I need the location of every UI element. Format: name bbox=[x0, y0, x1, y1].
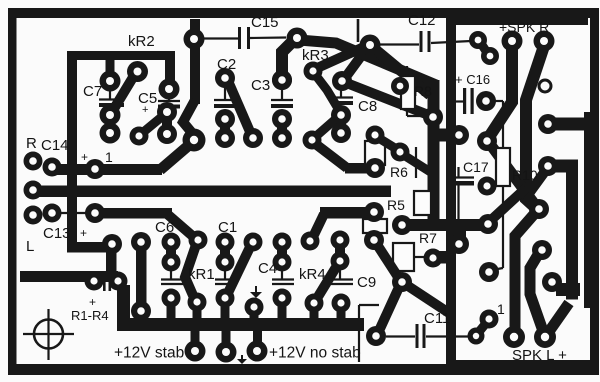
svg-text:+12V stab: +12V stab bbox=[114, 345, 184, 362]
svg-text:C12: C12 bbox=[408, 12, 436, 29]
svg-text:+12V no stab: +12V no stab bbox=[269, 345, 361, 362]
svg-text:C4: C4 bbox=[258, 260, 277, 277]
svg-text:C14: C14 bbox=[41, 137, 69, 154]
svg-text:1: 1 bbox=[105, 149, 113, 165]
svg-text:kR1: kR1 bbox=[188, 266, 215, 283]
svg-text:C2: C2 bbox=[217, 56, 236, 73]
svg-text:kR4: kR4 bbox=[299, 266, 326, 283]
svg-text:C13: C13 bbox=[43, 225, 71, 242]
svg-text:R8: R8 bbox=[414, 83, 432, 99]
svg-text:SPK L +: SPK L + bbox=[512, 347, 567, 364]
svg-text:C6: C6 bbox=[155, 219, 174, 236]
svg-text:C3: C3 bbox=[251, 77, 270, 94]
svg-text:C1: C1 bbox=[218, 219, 237, 236]
svg-text:+ C16: + C16 bbox=[455, 72, 490, 87]
svg-text:C17: C17 bbox=[463, 159, 489, 175]
svg-text:C15: C15 bbox=[251, 14, 279, 31]
svg-text:+: + bbox=[80, 226, 87, 240]
svg-text:R5: R5 bbox=[387, 197, 405, 213]
svg-text:C11: C11 bbox=[424, 310, 450, 327]
svg-text:R10: R10 bbox=[512, 167, 538, 183]
svg-text:L: L bbox=[26, 238, 34, 255]
svg-text:C9: C9 bbox=[357, 274, 376, 291]
svg-text:+: + bbox=[81, 150, 88, 164]
svg-text:+: + bbox=[89, 295, 96, 309]
svg-text:C8: C8 bbox=[358, 98, 377, 115]
svg-text:+: + bbox=[142, 104, 148, 116]
svg-text:1: 1 bbox=[497, 301, 505, 317]
svg-text:R6: R6 bbox=[390, 164, 408, 180]
svg-text:R1-R4: R1-R4 bbox=[71, 308, 109, 323]
svg-text:kR2: kR2 bbox=[128, 33, 155, 50]
svg-text:+SPK R: +SPK R bbox=[499, 19, 549, 35]
svg-text:kR3: kR3 bbox=[302, 47, 329, 64]
svg-text:R7: R7 bbox=[419, 230, 437, 246]
svg-text:C7: C7 bbox=[83, 83, 102, 100]
svg-text:R: R bbox=[26, 135, 37, 152]
